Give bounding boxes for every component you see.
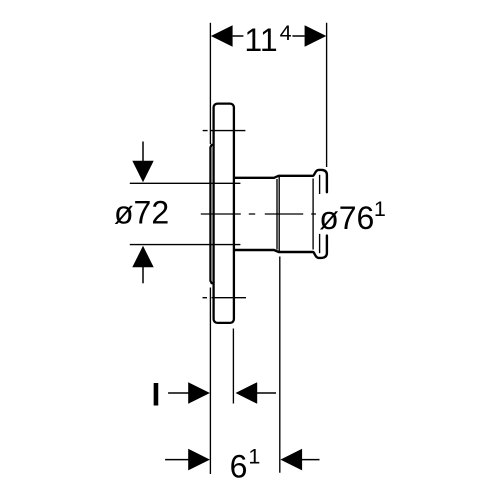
- dimension 11/4 left tail line: [233, 35, 244, 37]
- pipe and socket outer outline bottom: [235, 236, 327, 258]
- row1 left tail line: [168, 392, 189, 394]
- dia72 dimension line upper: [130, 182, 241, 184]
- pipe and socket outer outline top: [235, 170, 327, 192]
- row1 right tail line: [257, 392, 276, 394]
- center line: [201, 213, 316, 215]
- svg-text:ø72: ø72: [114, 194, 169, 230]
- svg-text:ø76: ø76: [319, 200, 374, 236]
- dimension 6/1 right tail line: [302, 459, 320, 461]
- dia72 upper arrow: [132, 161, 153, 183]
- svg-text:I: I: [152, 377, 161, 413]
- bolt hole centerline bottom: [203, 297, 247, 299]
- extension line left (x=210) top segment: [209, 23, 211, 144]
- row1 right arrow: [236, 382, 258, 404]
- socket step line 2: [278, 177, 280, 251]
- socket step line 1: [276, 179, 278, 250]
- extension line flange right face (x=233.4): [232, 329, 234, 404]
- dimension 6/1 left tail line: [165, 459, 189, 461]
- dimension 6/1 left arrow: [188, 449, 210, 471]
- dia72 dimension line lower: [130, 244, 241, 246]
- dimension 6/1 right arrow: [280, 449, 302, 471]
- bead inner line bottom: [319, 234, 321, 253]
- dia72 upper arrow stem: [142, 142, 144, 162]
- bolt hole centerline top: [203, 130, 246, 132]
- extension line right (x=326.6): [326, 23, 328, 167]
- svg-text:6: 6: [230, 449, 248, 485]
- bead inner line top: [319, 175, 321, 194]
- dia72 lower arrow: [132, 246, 153, 267]
- dia72 lower arrow stem: [142, 267, 144, 284]
- extension line left (x=210) bottom segment: [209, 288, 211, 475]
- svg-text:1: 1: [248, 445, 260, 469]
- row1 left arrow: [188, 382, 210, 404]
- dimension 11/4 right tail line: [292, 35, 304, 37]
- svg-text:4: 4: [280, 21, 292, 45]
- extension line socket step (x=279.8): [279, 257, 281, 473]
- dimension 11/4 right arrow: [305, 25, 327, 47]
- svg-text:11: 11: [244, 22, 277, 58]
- socket mouth line: [312, 179, 314, 250]
- flange body: [214, 104, 234, 323]
- svg-text:1: 1: [374, 197, 386, 221]
- dimension 11/4 left arrow: [211, 25, 233, 47]
- backing plate left edge: [210, 145, 213, 283]
